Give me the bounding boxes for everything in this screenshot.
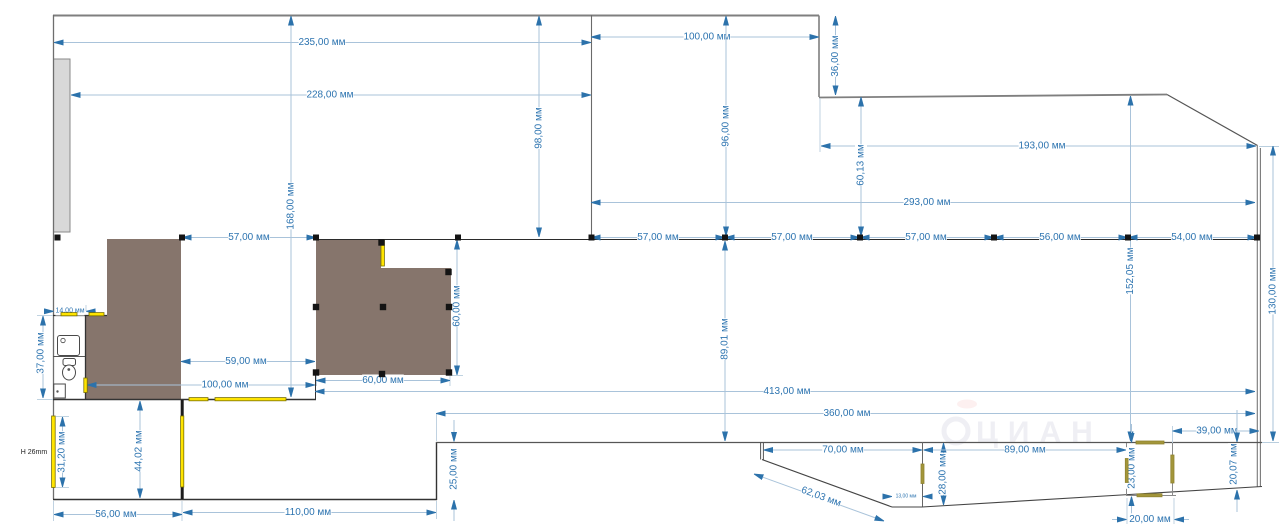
wall interior x=591 [591,15,593,239]
door yellow room2 notch [381,240,384,266]
svg-text:28,00 мм: 28,00 мм [938,453,949,495]
svg-text:36,00 мм: 36,00 мм [830,35,841,77]
dimension "60,13 мм" [860,97,862,236]
extension line for 39 dim [1172,426,1174,443]
cabinet (bottom-left of toilet room) [54,384,66,398]
svg-text:59,00 мм: 59,00 мм [225,356,267,367]
dimension "31,20 мм" [56,416,69,418]
svg-text:60,13 мм: 60,13 мм [856,144,867,186]
dimension "228,00 мм" [71,94,591,96]
window yellow a (toilet top left) [61,313,77,316]
watermark cian logo (faint) [944,400,1103,450]
wall x=922 [922,442,924,507]
wall left [53,15,55,499]
svg-text:96,00 мм: 96,00 мм [721,105,732,147]
dimension "98,00 мм" [538,16,540,237]
dimension "89,01 мм" [724,241,726,441]
room 1 (brown hall, left) [86,239,182,399]
door yellow toilet right wall [84,378,87,393]
svg-text:360,00 мм: 360,00 мм [823,408,870,419]
window yellow b (toilet top right) [89,313,104,316]
svg-text:H 26mm: H 26mm [21,449,48,456]
dimension "28,00 мм" [943,443,945,505]
wall x=182 (thick, bottom-left rooms) [181,400,184,499]
svg-text:25,00 мм: 25,00 мм [449,448,460,490]
dimension "57,00 мм" d [860,237,994,239]
wall right outer (double line a) [1256,146,1258,487]
dimension "20,00 мм" (outside arrows) [1126,498,1128,524]
svg-text:57,00 мм: 57,00 мм [637,232,679,243]
dimension "57,00 мм" a [182,237,316,239]
svg-text:20,00 мм: 20,00 мм [1129,514,1171,525]
dimension "57,00 мм" b [591,237,725,239]
svg-text:57,00 мм: 57,00 мм [771,232,813,243]
wall toilet top y=315 [53,315,107,317]
svg-text:20,07 мм: 20,07 мм [1229,443,1240,485]
dimension "152,05 мм" [1130,96,1132,441]
shaft (grey rect on left wall) [54,59,71,232]
extension line for 193 dim [819,98,821,152]
dimension "413,00 мм" [315,391,1255,393]
svg-text:60,00 мм: 60,00 мм [452,285,463,327]
dimension "59,00 мм" [181,361,315,363]
wall top [53,15,819,17]
wall diagonal top-right corner [1167,95,1258,146]
room 2 (brown hall, center) with notch [316,240,451,375]
svg-text:235,00 мм: 235,00 мм [298,37,345,48]
wall step right of top [818,16,820,98]
dimension "56,00 мм" [994,237,1128,239]
wall x=315 (below room 2) [315,375,317,399]
svg-text:89,01 мм: 89,01 мм [720,318,731,360]
wall step x=436 [436,442,438,500]
svg-text:31,20 мм: 31,20 мм [57,431,68,473]
wall bottom slope to right [922,487,1262,508]
svg-text:57,00 мм: 57,00 мм [905,232,947,243]
svg-text:100,00 мм: 100,00 мм [683,32,730,43]
doorway box bottom line [1126,495,1176,497]
extension lines for 130 dim [1259,146,1279,148]
svg-text:44,02 мм: 44,02 мм [134,430,145,472]
wall upper-right sloped [819,95,1167,98]
svg-text:193,00 мм: 193,00 мм [1018,141,1065,152]
svg-text:130,00 мм: 130,00 мм [1268,267,1279,314]
doorway olive bottom [1137,494,1162,497]
dimension "70,00 мм" [764,449,923,451]
svg-text:89,00 мм: 89,00 мм [1004,445,1046,456]
dimension "293,00 мм" [591,202,1255,204]
door yellow on wall y=399 (short) [189,398,208,401]
doorway box left line [1126,443,1128,496]
washbasin [58,336,80,356]
dimension "60,00 мм" bottom [316,380,450,382]
dimension "36,00 мм" [835,16,837,95]
dimension "100,00 мм" top [591,36,819,38]
dimension "39,00 мм" [1173,430,1260,432]
dimension "60,00 мм" vertical [456,240,458,375]
dimension "130,00 мм" [1272,146,1274,441]
wall grid line y=239 [316,239,1257,241]
doorway box right line [1172,443,1174,496]
svg-text:70,00 мм: 70,00 мм [822,445,864,456]
wall toilet divider y=356 [53,356,85,358]
dimension "57,00 мм" c [725,237,860,239]
wall y=399 [53,399,316,401]
extension line for 360 dim [436,413,438,441]
wall diagonal bottom [762,460,892,508]
extension lines bottom-left dims [53,501,55,521]
dimension "360,00 мм" [436,413,1255,415]
dimension "235,00 мм" [54,42,591,44]
dimension "168,00 мм" [290,16,292,397]
wall right outer (double line b) [1259,148,1261,487]
dimension "96,00 мм" [725,16,727,236]
dimension "14,00 мм" (small, outside arrows) [44,310,54,312]
dimension "44,02 мм" [139,401,141,498]
window olive x=922 [921,464,924,484]
column markers on grid line y=237 (black squares) [55,235,1261,241]
svg-text:168,00 мм: 168,00 мм [286,182,297,229]
dimension "23,00 мм" (outside arrows) [1131,424,1133,443]
svg-text:13,00 мм: 13,00 мм [896,493,917,499]
dimension "62,03 мм" (diagonal) [754,474,884,521]
svg-text:39,00 мм: 39,00 мм [1196,426,1238,437]
svg-text:413,00 мм: 413,00 мм [763,386,810,397]
wall toilet right x=85 [85,315,87,399]
svg-text:293,00 мм: 293,00 мм [903,197,950,208]
extension line for vertical 60 dim [452,375,463,377]
dimension "89,00 мм" [924,449,1127,451]
dimension "193,00 мм" [821,145,1256,147]
dimension "110,00 мм" [183,512,436,514]
dimension "56,00 мм" bottom [54,514,182,516]
svg-text:152,05 мм: 152,05 мм [1125,247,1136,294]
dimension "20,07 мм" (outside arrows) [1236,410,1238,442]
dimension "100,00 мм" bottom [87,384,315,386]
dimension "25,00 мм" (outside arrows) [453,420,455,442]
dimension "13,00 мм" (tiny) [884,496,892,498]
doorway olive top [1136,441,1164,444]
svg-text:54,00 мм: 54,00 мм [1171,232,1213,243]
svg-text:56,00 мм: 56,00 мм [95,509,137,520]
svg-text:110,00 мм: 110,00 мм [285,507,331,518]
svg-text:37,00 мм: 37,00 мм [36,332,47,374]
svg-text:57,00 мм: 57,00 мм [228,232,270,243]
wall main bottom y=442 [436,442,1262,444]
wall bottom segment y=507 [892,506,922,508]
svg-text:100,00 мм: 100,00 мм [201,380,248,391]
svg-text:56,00 мм: 56,00 мм [1039,232,1081,243]
window yellow left wall H26 [52,416,56,488]
svg-text:98,00 мм: 98,00 мм [534,107,545,149]
window yellow on wall x=182 [181,416,184,487]
dimension "37,00 мм" [37,315,53,317]
doorway olive left [1125,459,1128,483]
extension lines for bottom 60 dim [316,376,318,386]
wall bottom-left y=499 [53,499,437,501]
doorway olive right [1171,455,1174,483]
svg-text:228,00 мм: 228,00 мм [306,90,353,101]
dimension "54,00 мм" [1128,237,1257,239]
wall tick x=761 (double) [760,442,762,460]
column markers inside room 2 (black squares) [313,239,452,377]
toilet [63,359,76,381]
door yellow on wall y=399 (long) [215,398,286,401]
